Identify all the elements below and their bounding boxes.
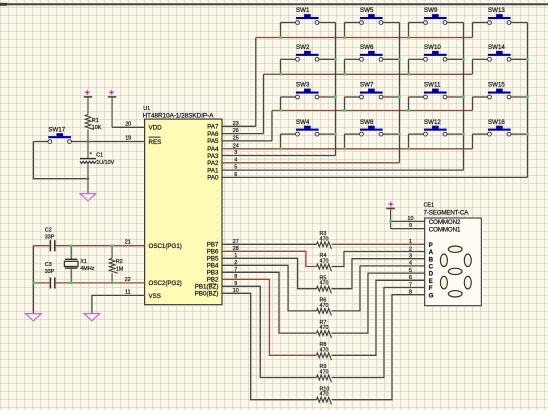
wire R9 to CE1 pin 7 bbox=[332, 288, 425, 378]
svg-text:A: A bbox=[429, 249, 434, 256]
wire OSC1 net bbox=[55, 245, 145, 247]
wire PB5 to R5 bbox=[222, 258, 317, 288]
switch SW12 bbox=[424, 119, 447, 136]
svg-text:1: 1 bbox=[409, 239, 412, 245]
junction column bus bbox=[526, 96, 529, 99]
segment c bbox=[464, 276, 471, 289]
svg-text:CE1: CE1 bbox=[424, 203, 435, 209]
wire SW15 drop bbox=[472, 97, 474, 111]
wire OSC2 left bbox=[33, 282, 50, 284]
svg-text:F: F bbox=[429, 285, 433, 292]
svg-text:B: B bbox=[429, 256, 434, 263]
svg-text:PA1: PA1 bbox=[207, 167, 219, 174]
wire SW12 right bbox=[447, 133, 464, 135]
junction column bus bbox=[526, 133, 529, 136]
svg-text:OSC1(PG1): OSC1(PG1) bbox=[149, 243, 182, 250]
svg-text:33P: 33P bbox=[45, 269, 55, 275]
svg-text:P: P bbox=[429, 242, 433, 249]
svg-text:PB3: PB3 bbox=[207, 270, 219, 277]
wire R5 to CE1 pin 3 bbox=[332, 259, 425, 289]
svg-text:PB0(BZ): PB0(BZ) bbox=[195, 291, 219, 298]
svg-text:COMMON2: COMMON2 bbox=[429, 219, 461, 226]
wire SW3 right bbox=[319, 96, 336, 98]
wire SW5 drop bbox=[344, 23, 346, 38]
svg-text:SW8: SW8 bbox=[360, 119, 374, 126]
wire SW11 left bbox=[409, 96, 424, 98]
wire OSC2 net bbox=[55, 282, 145, 284]
wire row bus 1 bbox=[256, 37, 473, 39]
wire SW9 right bbox=[447, 22, 464, 24]
resistor R10 bbox=[317, 397, 332, 404]
svg-text:PA2: PA2 bbox=[207, 160, 219, 167]
capacitor C3 bbox=[50, 277, 54, 288]
svg-text:X1: X1 bbox=[80, 259, 87, 265]
svg-text:G: G bbox=[429, 292, 434, 299]
svg-text:SW4: SW4 bbox=[296, 119, 310, 126]
svg-text:SW10: SW10 bbox=[424, 44, 441, 51]
junction row bus bbox=[279, 109, 282, 112]
svg-text:SW1: SW1 bbox=[296, 7, 310, 14]
wire SW16 drop bbox=[472, 134, 474, 149]
wire SW3 drop bbox=[280, 97, 282, 111]
switch SW8 bbox=[360, 119, 383, 136]
wire SW5 left bbox=[345, 22, 360, 24]
svg-text:10: 10 bbox=[408, 216, 414, 222]
wire SW6 drop bbox=[344, 59, 346, 74]
wire RES net bbox=[71, 141, 144, 143]
junction row bus bbox=[343, 73, 346, 76]
wire R10 to CE1 pin 8 bbox=[332, 295, 425, 400]
wire column bus 4 bbox=[527, 23, 529, 178]
junction row bus bbox=[407, 36, 410, 39]
svg-text:PB5: PB5 bbox=[207, 256, 219, 263]
svg-text:4: 4 bbox=[409, 261, 412, 267]
svg-text:HT48R10A-1/28SKDIP-A: HT48R10A-1/28SKDIP-A bbox=[143, 112, 215, 119]
svg-text:5: 5 bbox=[409, 268, 412, 274]
junction column bus bbox=[398, 58, 401, 61]
svg-text:470: 470 bbox=[320, 370, 329, 376]
switch SW10 bbox=[424, 44, 447, 61]
svg-text:VSS: VSS bbox=[149, 293, 161, 300]
wire SW17 left bbox=[33, 141, 48, 143]
wire PB0 to R10 bbox=[222, 293, 317, 399]
wire R3 to CE1 pin 1 bbox=[332, 243, 425, 245]
wire R4 to CE1 pin 2 bbox=[332, 252, 425, 267]
vcc symbol VCC3 bbox=[386, 202, 394, 229]
svg-text:11: 11 bbox=[125, 289, 131, 295]
wire R6 to CE1 pin 4 bbox=[332, 266, 425, 311]
svg-text:SW6: SW6 bbox=[360, 44, 374, 51]
svg-text:RES: RES bbox=[149, 139, 162, 146]
wire SW13 drop bbox=[472, 23, 474, 38]
capacitor C1 bbox=[80, 142, 96, 194]
switch SW6 bbox=[360, 44, 383, 61]
junction R2 bottom bbox=[111, 282, 114, 285]
svg-text:20: 20 bbox=[125, 121, 131, 127]
junction row bus bbox=[407, 148, 410, 151]
svg-text:SW11: SW11 bbox=[424, 82, 441, 89]
segment d bbox=[448, 291, 462, 297]
wire VSS net bbox=[92, 295, 145, 313]
wire CE1 pin 10 (COMMON) bbox=[391, 220, 425, 222]
wire PA1 net bbox=[222, 169, 464, 171]
wire SW4 right bbox=[319, 133, 336, 135]
svg-text:SW17: SW17 bbox=[48, 126, 65, 133]
wire SW8 left bbox=[345, 133, 360, 135]
svg-text:470: 470 bbox=[320, 259, 329, 265]
wire SW6 right bbox=[383, 58, 400, 60]
junction row bus bbox=[279, 148, 282, 151]
op? microcontroller U1 body bbox=[145, 119, 222, 305]
wire column bus 3 bbox=[463, 23, 465, 171]
wire SW7 right bbox=[383, 96, 400, 98]
svg-text:SW3: SW3 bbox=[296, 82, 310, 89]
svg-text:PA5: PA5 bbox=[207, 138, 219, 145]
junction column bus bbox=[462, 96, 465, 99]
junction row bus bbox=[279, 36, 282, 39]
junction VCC/COMMON bbox=[389, 220, 392, 223]
svg-text:OSC2(PG2): OSC2(PG2) bbox=[149, 280, 182, 287]
wire PA6 stub bbox=[222, 133, 264, 135]
junction column bus bbox=[334, 133, 337, 136]
svg-text:COMMON1: COMMON1 bbox=[429, 226, 461, 233]
wire PB3 to R7 bbox=[222, 272, 317, 333]
wire SW10 drop bbox=[408, 59, 410, 74]
wire riser row 3 bbox=[271, 111, 273, 141]
vcc symbol VCC1 bbox=[84, 90, 92, 115]
svg-text:PB6: PB6 bbox=[207, 249, 219, 256]
svg-text:C2: C2 bbox=[45, 228, 52, 234]
junction column bus bbox=[398, 133, 401, 136]
svg-text:19: 19 bbox=[125, 135, 131, 141]
ground (VSS) bbox=[84, 314, 100, 321]
wire SW17 loop bbox=[33, 142, 88, 179]
segment f bbox=[440, 254, 447, 267]
wire SW3 left bbox=[281, 96, 296, 98]
wire PB2 to R8 bbox=[222, 279, 317, 355]
resistor R2 bbox=[109, 246, 117, 283]
junction column bus bbox=[526, 58, 529, 61]
junction X1 top bbox=[70, 244, 73, 247]
switch SW14 bbox=[488, 44, 511, 61]
svg-text:470: 470 bbox=[320, 281, 329, 287]
switch SW9 bbox=[424, 7, 447, 24]
svg-text:PA3: PA3 bbox=[207, 153, 219, 160]
switch SW1 bbox=[296, 7, 319, 24]
junction column bus bbox=[462, 58, 465, 61]
wire SW5 right bbox=[383, 22, 400, 24]
svg-text:3: 3 bbox=[409, 254, 412, 260]
wire PA2 net bbox=[222, 162, 400, 164]
svg-text:R2: R2 bbox=[116, 259, 123, 265]
wire OSC1 left bbox=[33, 245, 50, 247]
switch SW3 bbox=[296, 82, 319, 99]
svg-text:6: 6 bbox=[409, 275, 412, 281]
svg-text:7-SEGMENT-CA: 7-SEGMENT-CA bbox=[424, 209, 470, 216]
junction C1/SW17 loop bbox=[87, 177, 90, 180]
wire SW15 right bbox=[511, 96, 528, 98]
switch SW16 bbox=[488, 119, 511, 136]
wire SW8 right bbox=[383, 133, 400, 135]
resistor R7 bbox=[317, 331, 332, 338]
junction R2 top bbox=[111, 244, 114, 247]
segment b bbox=[464, 254, 471, 267]
wire SW10 left bbox=[409, 58, 424, 60]
wire SW9 drop bbox=[408, 23, 410, 38]
svg-text:PA6: PA6 bbox=[207, 131, 219, 138]
wire VDD net bbox=[112, 126, 145, 128]
svg-text:SW12: SW12 bbox=[424, 119, 441, 126]
svg-text:470: 470 bbox=[320, 236, 329, 242]
wire SW2 left bbox=[281, 58, 296, 60]
wire SW1 drop bbox=[280, 23, 282, 38]
svg-text:22: 22 bbox=[125, 277, 131, 283]
resistor R8 bbox=[317, 353, 332, 360]
resistor R5 bbox=[317, 286, 332, 293]
wire PA3 net bbox=[222, 155, 336, 157]
svg-text:VDD: VDD bbox=[149, 125, 163, 132]
svg-text:470: 470 bbox=[320, 347, 329, 353]
wire SW15 left bbox=[473, 96, 488, 98]
segment e bbox=[440, 276, 447, 289]
svg-text:R1: R1 bbox=[92, 118, 99, 124]
vcc symbol VCC2 bbox=[108, 90, 116, 128]
wire SW4 drop bbox=[280, 134, 282, 149]
svg-text:8: 8 bbox=[409, 290, 412, 296]
resistor R6 bbox=[317, 309, 332, 316]
svg-text:SW15: SW15 bbox=[488, 82, 505, 89]
wire SW10 right bbox=[447, 58, 464, 60]
svg-text:SW16: SW16 bbox=[488, 119, 505, 126]
wire PB1 to R9 bbox=[222, 286, 317, 377]
svg-text:10K: 10K bbox=[92, 125, 102, 131]
junction row bus bbox=[343, 36, 346, 39]
wire PA7 stub bbox=[222, 125, 256, 127]
svg-text:PB4: PB4 bbox=[207, 263, 219, 270]
wire SW7 left bbox=[345, 96, 360, 98]
junction C3 left bbox=[32, 282, 35, 285]
wire R8 to CE1 pin 6 bbox=[332, 280, 425, 355]
wire PB7 to R3 bbox=[222, 243, 317, 245]
svg-text:PB2: PB2 bbox=[207, 277, 219, 284]
junction row bus bbox=[343, 148, 346, 151]
wire SW16 left bbox=[473, 133, 488, 135]
wire SW14 left bbox=[473, 58, 488, 60]
ground (C1) bbox=[80, 194, 96, 201]
wire row bus 2 bbox=[264, 73, 473, 75]
resistor R4 bbox=[317, 264, 332, 271]
wire SW1 left bbox=[281, 22, 296, 24]
wire SW12 left bbox=[409, 133, 424, 135]
junction X1 bottom bbox=[70, 282, 73, 285]
svg-text:PA7: PA7 bbox=[207, 124, 219, 131]
display CE1 body bbox=[425, 218, 482, 306]
wire SW13 left bbox=[473, 22, 488, 24]
junction row bus bbox=[407, 73, 410, 76]
resistor R1 bbox=[85, 115, 93, 142]
svg-text:1U/10V: 1U/10V bbox=[96, 160, 114, 166]
svg-text:4MHz: 4MHz bbox=[80, 266, 94, 272]
junction row bus bbox=[407, 109, 410, 112]
wire R7 to CE1 pin 5 bbox=[332, 273, 425, 333]
svg-text:D: D bbox=[429, 271, 434, 278]
wire SW4 left bbox=[281, 133, 296, 135]
junction column bus bbox=[334, 58, 337, 61]
wire SW12 drop bbox=[408, 134, 410, 149]
wire SW14 right bbox=[511, 58, 528, 60]
svg-text:470: 470 bbox=[320, 325, 329, 331]
svg-text:SW14: SW14 bbox=[488, 44, 505, 51]
segment a bbox=[448, 246, 462, 252]
svg-text:9: 9 bbox=[409, 223, 412, 229]
svg-text:C: C bbox=[429, 264, 434, 271]
wire PB6 to R4 bbox=[222, 251, 317, 266]
svg-text:SW13: SW13 bbox=[488, 7, 505, 14]
svg-text:PA0: PA0 bbox=[207, 175, 219, 182]
wire SW8 drop bbox=[344, 134, 346, 149]
switch SW7 bbox=[360, 82, 383, 99]
wire SW14 drop bbox=[472, 59, 474, 74]
svg-text:SW7: SW7 bbox=[360, 82, 374, 89]
switch SW5 bbox=[360, 7, 383, 24]
wire gnd rail left bbox=[32, 246, 34, 314]
svg-text:C1: C1 bbox=[96, 152, 103, 158]
wire SW16 right bbox=[511, 133, 528, 135]
wire row bus 3 bbox=[272, 110, 473, 112]
svg-text:SW9: SW9 bbox=[424, 7, 438, 14]
svg-text:PB7: PB7 bbox=[207, 242, 219, 249]
switch SW13 bbox=[488, 7, 511, 24]
wire column bus 1 bbox=[335, 23, 337, 156]
switch SW17 bbox=[48, 126, 71, 143]
wire SW1 right bbox=[319, 22, 336, 24]
junction R1/C1 on RES net bbox=[87, 140, 90, 143]
svg-text:470: 470 bbox=[320, 303, 329, 309]
junction column bus bbox=[334, 96, 337, 99]
svg-text:7: 7 bbox=[409, 282, 412, 288]
svg-text:21: 21 bbox=[125, 240, 131, 246]
resistor R9 bbox=[317, 375, 332, 382]
svg-text:PB1(BZ): PB1(BZ) bbox=[195, 284, 219, 291]
wire SW2 drop bbox=[280, 59, 282, 74]
crystal X1 bbox=[64, 246, 78, 283]
svg-text:SW2: SW2 bbox=[296, 44, 310, 51]
junction row bus bbox=[343, 109, 346, 112]
junction row bus bbox=[279, 73, 282, 76]
ground (left rail) bbox=[26, 314, 42, 321]
segment g bbox=[448, 268, 462, 274]
wire column bus 2 bbox=[399, 23, 401, 163]
wire SW11 right bbox=[447, 96, 464, 98]
wire PA5 stub bbox=[222, 140, 272, 142]
svg-text:1M: 1M bbox=[116, 267, 124, 273]
svg-text:33P: 33P bbox=[45, 235, 55, 241]
switch SW2 bbox=[296, 44, 319, 61]
junction column bus bbox=[462, 133, 465, 136]
svg-text:2: 2 bbox=[409, 246, 412, 252]
wire SW13 right bbox=[511, 22, 528, 24]
svg-text:U1: U1 bbox=[143, 106, 150, 112]
svg-text:SW5: SW5 bbox=[360, 7, 374, 14]
svg-text:E: E bbox=[429, 278, 433, 285]
capacitor C2 bbox=[50, 240, 54, 251]
svg-text:470: 470 bbox=[320, 392, 329, 398]
wire CE1 pin 9 (COMMON) bbox=[391, 228, 425, 230]
wire row bus 4 bbox=[234, 148, 473, 150]
switch SW15 bbox=[488, 82, 511, 99]
wire SW9 left bbox=[409, 22, 424, 24]
wire PA0 net bbox=[222, 176, 528, 178]
switch SW11 bbox=[424, 82, 447, 99]
svg-text:C3: C3 bbox=[45, 262, 52, 268]
junction column bus bbox=[398, 96, 401, 99]
wire SW11 drop bbox=[408, 97, 410, 111]
wire riser row 2 bbox=[263, 74, 265, 133]
wire PA4 stub bbox=[222, 148, 234, 150]
wire PB4 to R6 bbox=[222, 265, 317, 311]
wire riser row 1 bbox=[255, 38, 257, 127]
wire SW2 right bbox=[319, 58, 336, 60]
switch SW4 bbox=[296, 119, 319, 136]
resistor R3 bbox=[317, 242, 332, 249]
wire SW6 left bbox=[345, 58, 360, 60]
wire SW7 drop bbox=[344, 97, 346, 111]
